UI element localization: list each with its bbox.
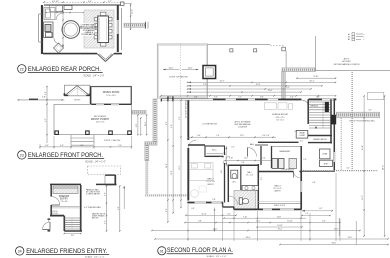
rear porch roof vent square bbox=[121, 2, 124, 5]
front porch columns bbox=[55, 131, 59, 135]
rear porch top dimension ticks and text bbox=[44, 1, 122, 3]
svg-text:8'-0": 8'-0" bbox=[136, 123, 138, 127]
friends entry dimension line outer bbox=[119, 186, 121, 231]
svg-text:23: 23 bbox=[20, 154, 24, 158]
svg-text:63'-6": 63'-6" bbox=[332, 243, 337, 245]
svg-text:4'-0" PLASTER WALL: 4'-0" PLASTER WALL bbox=[84, 206, 101, 209]
svg-text:LOCATION: LOCATION bbox=[238, 126, 248, 129]
svg-text:13'-0": 13'-0" bbox=[171, 170, 173, 175]
friends entry dimension line inner bbox=[106, 186, 108, 231]
svg-text:2'-6": 2'-6" bbox=[303, 159, 307, 161]
svg-text:POWER ABOVE: POWER ABOVE bbox=[81, 33, 95, 36]
svg-text:1'-6": 1'-6" bbox=[305, 213, 309, 215]
svg-text:20'-2": 20'-2" bbox=[278, 229, 283, 231]
roof plan rectangle (open to below) bbox=[157, 44, 207, 98]
roof centerline bbox=[180, 44, 182, 98]
svg-text:FLOOR: FLOOR bbox=[52, 213, 59, 215]
svg-text:4'-6": 4'-6" bbox=[60, 145, 64, 147]
closet by stairs bbox=[296, 131, 308, 139]
svg-text:ROOF TOP BELOW: ROOF TOP BELOW bbox=[169, 76, 187, 78]
svg-text:13'-2": 13'-2" bbox=[256, 221, 261, 223]
bottom outline of plan bbox=[187, 202, 223, 204]
svg-text:2'-8": 2'-8" bbox=[212, 199, 216, 201]
rear porch note text backing bbox=[83, 23, 95, 36]
svg-text:7'0 x 8'6: 7'0 x 8'6 bbox=[61, 201, 68, 203]
svg-text:9'-2": 9'-2" bbox=[286, 87, 290, 89]
svg-text:ENLARGED FRONT PORCH.: ENLARGED FRONT PORCH. bbox=[28, 152, 103, 159]
right main wall bbox=[333, 99, 335, 171]
svg-text:BONUS ROOM: BONUS ROOM bbox=[272, 114, 287, 116]
svg-text:5'-2": 5'-2" bbox=[168, 97, 172, 99]
bed4 entry door bbox=[294, 171, 300, 173]
svg-text:24'-8": 24'-8" bbox=[166, 163, 168, 168]
svg-text:21'-4": 21'-4" bbox=[362, 145, 364, 150]
svg-text:6'-2 1/2": 6'-2 1/2" bbox=[52, 1, 59, 3]
svg-text:9'-8": 9'-8" bbox=[171, 124, 173, 128]
bonus room furniture bbox=[264, 103, 276, 110]
svg-text:4'-8": 4'-8" bbox=[312, 182, 316, 184]
rear porch right dimension line bbox=[130, 4, 132, 31]
svg-text:9'-8": 9'-8" bbox=[198, 221, 202, 223]
roof vent squares bbox=[230, 49, 233, 52]
svg-text:7'-4": 7'-4" bbox=[203, 84, 207, 86]
bottom-left dark corner piece bbox=[105, 174, 116, 176]
svg-text:ACCESS: ACCESS bbox=[342, 60, 351, 63]
svg-text:24: 24 bbox=[18, 250, 22, 254]
right dim line B bbox=[384, 96, 386, 236]
svg-text:6'-8": 6'-8" bbox=[194, 97, 198, 99]
front porch right dimension lines bbox=[137, 115, 139, 135]
svg-text:01: 01 bbox=[160, 249, 164, 253]
roof dim row 4 bbox=[188, 88, 191, 90]
bed4 closet bbox=[258, 202, 301, 204]
svg-text:14'-0": 14'-0" bbox=[169, 67, 174, 69]
laundry room bbox=[271, 146, 273, 168]
rear porch round table bbox=[62, 21, 80, 39]
svg-text:SHELF & ROD: SHELF & ROD bbox=[274, 205, 286, 207]
svg-text:14'-7": 14'-7" bbox=[220, 80, 225, 82]
svg-text:4'-0": 4'-0" bbox=[266, 135, 270, 137]
svg-text:& SHELF ABOVE: & SHELF ABOVE bbox=[86, 193, 101, 196]
svg-text:11'-2": 11'-2" bbox=[362, 195, 364, 200]
roof dim row 1 bbox=[297, 77, 336, 79]
svg-text:14'0 x 17'0: 14'0 x 17'0 bbox=[275, 117, 284, 119]
rear porch chair diamond bbox=[54, 43, 64, 53]
bath tile floor bbox=[234, 191, 256, 209]
svg-text:12'-6": 12'-6" bbox=[131, 9, 133, 14]
svg-text:3'-0": 3'-0" bbox=[231, 147, 235, 149]
rear porch bottom wall bbox=[43, 53, 97, 55]
rear porch rug hatch bbox=[84, 10, 114, 48]
rear porch interior dim arrows bbox=[62, 10, 64, 48]
svg-text:5'-0": 5'-0" bbox=[221, 169, 223, 173]
upper right area boundary bbox=[314, 36, 316, 71]
svg-text:9'-4": 9'-4" bbox=[88, 1, 92, 3]
linen closet bbox=[320, 149, 331, 159]
svg-text:5'-2": 5'-2" bbox=[179, 116, 181, 120]
detail label 23 circle bbox=[18, 151, 26, 159]
svg-text:LINEN: LINEN bbox=[322, 154, 328, 156]
svg-text:4'-6": 4'-6" bbox=[45, 145, 49, 147]
svg-text:12'-10": 12'-10" bbox=[287, 221, 293, 223]
svg-text:ENLARGED REAR PORCH.: ENLARGED REAR PORCH. bbox=[28, 66, 101, 73]
bath cluster outer walls bbox=[228, 164, 259, 166]
svg-text:9'-8": 9'-8" bbox=[118, 206, 120, 210]
friends entry top wall bbox=[50, 183, 81, 185]
second floor top wall bbox=[161, 98, 213, 100]
right hatched truss band bbox=[336, 112, 379, 117]
upper hatched wall band horizontal bbox=[282, 68, 315, 72]
svg-text:5'6 x 11'0: 5'6 x 11'0 bbox=[246, 174, 253, 176]
svg-text:6'-8": 6'-8" bbox=[45, 91, 47, 95]
svg-text:BA 2: BA 2 bbox=[248, 171, 252, 174]
bottom dim extension stubs bbox=[187, 204, 189, 241]
rear porch top counter bbox=[50, 6, 63, 12]
svg-text:22: 22 bbox=[20, 67, 24, 71]
bottom short dim rows bbox=[186, 214, 236, 216]
front porch bottom dimension line bbox=[40, 146, 132, 148]
front porch left dimension line bbox=[46, 87, 48, 144]
svg-text:4'-0": 4'-0" bbox=[227, 213, 231, 215]
rear porch right wall windows bbox=[117, 20, 119, 34]
svg-text:SECOND FLOOR PLAN A.: SECOND FLOOR PLAN A. bbox=[167, 247, 233, 254]
svg-text:14'-10": 14'-10" bbox=[277, 225, 283, 227]
svg-text:5'-4": 5'-4" bbox=[262, 157, 266, 159]
front porch gabled vestibule bbox=[64, 85, 90, 96]
upper hatched wall band vertical bbox=[282, 72, 286, 100]
svg-text:DINING ROOM: DINING ROOM bbox=[103, 91, 119, 94]
right dotted lines bbox=[340, 118, 342, 171]
rear porch dining table bbox=[98, 16, 109, 43]
svg-text:3'-8": 3'-8" bbox=[71, 235, 75, 237]
front porch left wall stub line bbox=[18, 99, 65, 101]
svg-text:BELOW: BELOW bbox=[92, 217, 99, 219]
svg-text:1/2 TRAY BELOW: 1/2 TRAY BELOW bbox=[202, 122, 217, 125]
roof dim row 5 bbox=[188, 91, 191, 93]
svg-text:12'-4": 12'-4" bbox=[256, 84, 261, 86]
svg-text:NO WORK THIS AREA: NO WORK THIS AREA bbox=[185, 100, 188, 118]
friends entry right wall bbox=[80, 185, 82, 231]
svg-text:7'-0": 7'-0" bbox=[60, 10, 64, 12]
right dim line A bbox=[363, 96, 365, 236]
friends entry lower wall and stairs bbox=[50, 215, 64, 217]
svg-text:5'-2": 5'-2" bbox=[108, 1, 112, 3]
svg-text:9'-0": 9'-0" bbox=[368, 110, 372, 112]
rear porch right hatched wall band bbox=[124, 23, 146, 27]
rear porch left service rooms bbox=[44, 8, 55, 20]
svg-text:FRONT PORCH: FRONT PORCH bbox=[91, 118, 109, 121]
svg-text:HALL: HALL bbox=[250, 143, 254, 146]
hall wall west bbox=[188, 144, 205, 146]
roof dimension arrows bbox=[163, 69, 180, 71]
front porch dining room bbox=[91, 86, 131, 104]
roof outline right of rect bbox=[208, 43, 271, 45]
svg-text:7'-2": 7'-2" bbox=[238, 97, 242, 99]
rear porch outer walls bbox=[44, 4, 122, 6]
svg-text:8'-2": 8'-2" bbox=[166, 121, 168, 125]
left hatched eave band bbox=[153, 99, 157, 142]
svg-text:6'-2": 6'-2" bbox=[319, 208, 323, 210]
plan left dim line 1 bbox=[167, 100, 169, 222]
svg-text:W.I.C.: W.I.C. bbox=[212, 150, 217, 152]
friends entry porch corner walls bbox=[105, 174, 116, 176]
svg-text:LINE OF TRUSS BEARING WALL: LINE OF TRUSS BEARING WALL bbox=[349, 120, 375, 123]
svg-text:ATTIC STORAGE: ATTIC STORAGE bbox=[235, 121, 252, 124]
svg-text:11'-2": 11'-2" bbox=[240, 135, 245, 137]
bed2 east wall bbox=[224, 152, 226, 203]
bath door arc lower bbox=[229, 196, 238, 205]
svg-text:9'-6": 9'-6" bbox=[214, 97, 218, 99]
svg-text:2'-8": 2'-8" bbox=[42, 96, 46, 98]
svg-text:8'-4": 8'-4" bbox=[260, 97, 264, 99]
friends entry left wall and door bbox=[50, 185, 52, 197]
left dotted eave band lower bbox=[145, 161, 148, 195]
front porch steps bbox=[70, 135, 72, 146]
friends entry bench bbox=[53, 186, 78, 194]
svg-text:9'-2": 9'-2" bbox=[45, 118, 47, 122]
svg-text:2'-8": 2'-8" bbox=[241, 162, 245, 164]
wic side vertical dim bbox=[225, 146, 227, 166]
rear porch bay window bbox=[97, 54, 106, 62]
hall walls center bbox=[258, 141, 299, 143]
svg-text:ENTRY: ENTRY bbox=[74, 99, 81, 101]
svg-text:CLOSET: CLOSET bbox=[299, 135, 305, 137]
mid dim line bbox=[188, 136, 277, 138]
svg-text:5'-8": 5'-8" bbox=[316, 97, 320, 99]
bonus room entry door bbox=[302, 100, 309, 107]
bath vanity bbox=[242, 186, 258, 191]
wic door arc bbox=[220, 157, 227, 164]
svg-text:CARPET: CARPET bbox=[274, 190, 281, 193]
svg-text:11'-10": 11'-10" bbox=[201, 213, 207, 215]
rear porch interior door arcs bbox=[56, 13, 63, 20]
svg-text:5'-6": 5'-6" bbox=[105, 192, 107, 196]
svg-text:39'-4": 39'-4" bbox=[246, 237, 251, 239]
svg-text:24'6 x 8'0: 24'6 x 8'0 bbox=[96, 122, 105, 124]
detail label 22 circle bbox=[18, 65, 26, 73]
left bearing wall bbox=[187, 100, 189, 200]
plan label 01 circle bbox=[158, 247, 166, 255]
roof dim row 2 bbox=[188, 82, 191, 84]
svg-text:12'0 x 14'0: 12'0 x 14'0 bbox=[106, 95, 116, 97]
svg-text:9'-4": 9'-4" bbox=[80, 145, 84, 147]
right dashed dormer rect bbox=[367, 93, 383, 100]
svg-text:5'-2": 5'-2" bbox=[300, 141, 304, 143]
svg-text:6'-0": 6'-0" bbox=[290, 97, 294, 99]
attic chase box bbox=[320, 160, 333, 166]
svg-text:14'-6": 14'-6" bbox=[277, 216, 282, 218]
friends entry floor line bbox=[52, 206, 80, 208]
svg-text:38'-0": 38'-0" bbox=[383, 165, 385, 170]
hall dim row bbox=[225, 160, 274, 162]
vertical dim stub near bath3 bbox=[214, 208, 216, 232]
friends entry below-steps marks bbox=[64, 233, 80, 235]
svg-text:7'-6": 7'-6" bbox=[118, 145, 122, 147]
svg-text:14'-0": 14'-0" bbox=[188, 67, 193, 69]
walk in closet bbox=[205, 146, 225, 157]
detail label 24 circle bbox=[16, 247, 24, 255]
svg-text:UNIT MECHANICAL LOCATION: UNIT MECHANICAL LOCATION bbox=[334, 63, 361, 66]
svg-text:9'-4": 9'-4" bbox=[322, 221, 326, 223]
bottom right dim verticals bbox=[338, 218, 340, 236]
svg-text:10'-2": 10'-2" bbox=[145, 121, 147, 126]
bottom dim row 1 bbox=[185, 222, 340, 224]
bottom dim row 2 bbox=[152, 230, 360, 232]
svg-text:3'-4": 3'-4" bbox=[346, 168, 350, 170]
plan left dim line 3 bbox=[180, 100, 182, 208]
svg-text:CARPET: CARPET bbox=[207, 183, 214, 186]
bottom dim row 3 bbox=[155, 238, 388, 240]
svg-text:6'-4": 6'-4" bbox=[261, 176, 263, 180]
bed2 furniture bbox=[190, 163, 214, 181]
svg-text:SCALE : 1/4" = 1'-0": SCALE : 1/4" = 1'-0" bbox=[85, 161, 106, 164]
roof dim row 3 bbox=[188, 85, 191, 87]
svg-text:W.C.: W.C. bbox=[233, 181, 237, 183]
svg-text:9'-4": 9'-4" bbox=[197, 135, 201, 137]
friends entry lower-left door arcs bbox=[43, 222, 51, 230]
svg-text:SCALE : 1/4" = 1'-0": SCALE : 1/4" = 1'-0" bbox=[84, 74, 105, 77]
stairs bbox=[307, 99, 309, 124]
svg-text:ENTRY: ENTRY bbox=[60, 198, 68, 201]
svg-text:7'-10": 7'-10" bbox=[243, 216, 248, 218]
svg-text:3'-2": 3'-2" bbox=[294, 131, 298, 133]
water closet bbox=[231, 170, 238, 178]
front porch slab outline bbox=[54, 103, 91, 105]
svg-text:11'-4": 11'-4" bbox=[179, 165, 181, 170]
svg-text:8'-0" CLG: 8'-0" CLG bbox=[276, 120, 284, 122]
svg-text:8'-10": 8'-10" bbox=[314, 76, 319, 78]
hall door arc to bath bbox=[248, 148, 257, 157]
friends entry dashed reference rect bbox=[88, 166, 121, 175]
svg-text:ENLARGED FRIENDS ENTRY.: ENLARGED FRIENDS ENTRY. bbox=[26, 248, 107, 255]
plan left dim line 2 bbox=[172, 100, 174, 213]
svg-text:11'-6": 11'-6" bbox=[268, 90, 273, 92]
svg-text:11'-2": 11'-2" bbox=[244, 157, 249, 159]
chimney bbox=[203, 66, 216, 79]
svg-text:BA/LAUNDRY: BA/LAUNDRY bbox=[280, 150, 292, 153]
svg-text:4'-2": 4'-2" bbox=[105, 220, 107, 224]
svg-text:26'-1": 26'-1" bbox=[310, 80, 315, 82]
bottom dim row 4 bbox=[280, 244, 388, 246]
svg-text:4'-6": 4'-6" bbox=[191, 208, 195, 210]
dining east hatch band bbox=[132, 111, 146, 115]
svg-text:24'-2": 24'-2" bbox=[348, 237, 353, 239]
svg-text:7'-4": 7'-4" bbox=[216, 135, 220, 137]
svg-text:6'-0": 6'-0" bbox=[166, 208, 168, 212]
bed4 right extension line bbox=[302, 210, 334, 212]
landing walls bbox=[308, 135, 332, 137]
svg-text:5'-10": 5'-10" bbox=[229, 157, 234, 159]
